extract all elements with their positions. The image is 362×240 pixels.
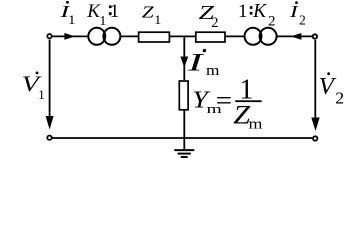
current arrow Im: [180, 57, 188, 68]
svg-text:2: 2: [335, 89, 344, 107]
svg-text:1: 1: [99, 14, 106, 29]
admittance Ym box: [179, 81, 188, 110]
wire T2 to right terminal: [277, 35, 313, 37]
svg-text:I: I: [289, 2, 299, 21]
label I2: [289, 1, 306, 27]
label Z1: [142, 3, 161, 27]
svg-text:1: 1: [68, 12, 75, 26]
wire top rail left segment: [53, 35, 89, 37]
current arrow I1: [64, 33, 75, 40]
voltage arrow V1: [46, 40, 54, 130]
ground: [174, 138, 194, 157]
svg-text:1: 1: [154, 13, 161, 27]
wire arrow to Ym box: [183, 63, 185, 80]
svg-text:K: K: [252, 1, 267, 22]
svg-text:1: 1: [238, 1, 248, 22]
wire Z1 to Z2 through middle node: [170, 35, 195, 37]
svg-text:2: 2: [268, 14, 276, 30]
svg-text:m: m: [249, 115, 263, 132]
svg-text:1: 1: [110, 1, 120, 22]
terminal node 2' bottom-right: [313, 136, 317, 140]
label I1: [59, 1, 75, 27]
label Z2: [199, 3, 219, 31]
voltage arrow V2: [311, 40, 319, 131]
svg-text:m: m: [206, 63, 220, 79]
svg-text:1: 1: [38, 87, 45, 102]
wire middle branch upper: [183, 36, 185, 56]
current arrow I2: [291, 33, 302, 40]
label Ym = 1/Zm: [192, 75, 262, 132]
label V2: [319, 72, 345, 107]
resistor Z2: [196, 32, 225, 42]
svg-text:2: 2: [299, 13, 306, 28]
transformer U1 K1:1: [88, 28, 120, 45]
resistor Z1: [139, 32, 170, 42]
wire bottom rail: [53, 137, 313, 139]
label Im: [187, 48, 220, 78]
transformer U2 1:K2: [245, 28, 277, 45]
label K1:1: [86, 1, 119, 29]
wire Ym box to bottom rail: [183, 111, 185, 139]
label V1: [22, 71, 45, 101]
svg-text:Z: Z: [142, 3, 154, 22]
wire Z2 to T2: [226, 35, 245, 37]
svg-text:I: I: [187, 48, 205, 76]
label 1:K2: [238, 1, 276, 30]
svg-text:=: =: [216, 86, 232, 115]
wire T1 to Z1: [120, 35, 138, 37]
terminal node 2 top-right: [313, 34, 317, 38]
terminal node 1 top-left: [47, 34, 51, 38]
svg-text:2: 2: [211, 15, 218, 31]
terminal node 1' bottom-left: [47, 136, 51, 140]
